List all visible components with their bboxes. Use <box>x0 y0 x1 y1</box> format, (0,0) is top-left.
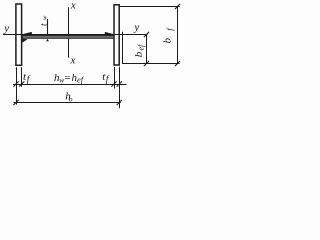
tick A3 <box>111 81 116 86</box>
extension line right flange outer <box>119 67 121 109</box>
svg-text:y: y <box>3 22 9 34</box>
t_w lower arrow nub <box>46 39 49 42</box>
helper extension line right of flange <box>122 32 124 64</box>
weld triangle lower left <box>22 39 27 43</box>
extension line left flange outer <box>16 67 18 104</box>
b_f dimension line <box>177 7 179 64</box>
tick bef top <box>144 32 149 37</box>
y axis <box>3 34 148 36</box>
svg-text:x: x <box>70 54 76 66</box>
extension line left flange inner <box>21 67 23 87</box>
svg-text:t: t <box>40 23 50 26</box>
extension line right flange inner <box>114 67 116 88</box>
svg-text:w: w <box>41 15 48 20</box>
t_w extension line <box>47 19 49 35</box>
tick A2 <box>19 81 24 86</box>
svg-text:b: b <box>162 38 174 44</box>
b_ef dimension line <box>146 35 148 64</box>
weld arrow left on axis <box>22 32 32 35</box>
left flange <box>16 4 22 65</box>
tick B1 <box>13 100 18 105</box>
tick bf bottom <box>175 61 180 66</box>
bottom extension line right <box>122 63 180 65</box>
tick A4 <box>117 81 122 86</box>
svg-text:=: = <box>64 72 71 84</box>
svg-text:x: x <box>70 0 76 12</box>
weld arrow right on axis <box>105 32 114 35</box>
x axis <box>68 7 70 57</box>
tick B2 <box>117 100 122 105</box>
tick bef bottom <box>144 61 149 66</box>
svg-text:b: b <box>133 51 145 57</box>
dimension line h overall <box>14 102 121 104</box>
svg-text:y: y <box>133 22 139 34</box>
tick A1 <box>13 81 18 86</box>
top extension line right <box>120 6 180 8</box>
tick bf top <box>175 4 180 9</box>
web <box>22 35 114 38</box>
dimension line t_f / h_w / t_f <box>13 84 127 86</box>
svg-text:o: o <box>69 94 73 103</box>
right flange <box>114 5 119 65</box>
